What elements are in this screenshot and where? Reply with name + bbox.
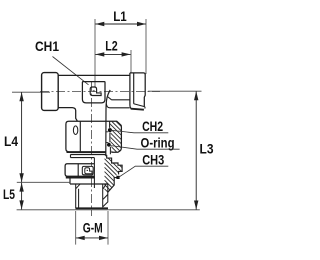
- body CH3 bottom thick edge: [66, 176, 95, 178]
- section hatching body below CH2: [105, 154, 123, 193]
- svg-text:L1: L1: [113, 9, 127, 24]
- wire vertical stem axis: [90, 82, 92, 216]
- body CH3 socket glyph: [85, 168, 92, 174]
- body right swivel nut right edge: [143, 74, 146, 106]
- wire L5 dimension line with arrows: [21, 183, 23, 210]
- body CH1 hex box: [82, 82, 105, 103]
- body washer under CH2 nut: [71, 155, 107, 158]
- svg-text:CH1: CH1: [35, 39, 59, 54]
- body CH3 locknut hex: [65, 164, 94, 177]
- body right port cone diagonal: [108, 97, 112, 100]
- wire right axis extension solid to L3: [148, 90, 202, 92]
- body threaded stud: [76, 183, 108, 208]
- svg-text:L3: L3: [200, 141, 214, 156]
- body stem right fillet S-curve and stem edge in section: [106, 90, 110, 154]
- wire L4/L5 datum extension line: [17, 181, 70, 183]
- svg-text:CH3: CH3: [142, 152, 164, 167]
- wire CH2 leader: [110, 130, 168, 133]
- body left cap: [42, 73, 59, 111]
- body right swivel nut inner chamfer line: [133, 73, 135, 104]
- wire L1 dimension line with arrows: [95, 23, 146, 25]
- body CH2 swivel nut on stem: [66, 121, 122, 152]
- body CH2 nut bore profile with O-ring steps: [109, 121, 112, 154]
- body barrel top edge: [58, 74, 130, 76]
- wire L1/L2 left extension line: [94, 19, 96, 87]
- node CH3 leader dot: [116, 176, 119, 179]
- wire horizontal centerline barrel axis: [40, 91, 160, 93]
- section hatching CH2 nut: [105, 122, 122, 153]
- body right swivel nut top edge: [130, 73, 145, 75]
- body collar below CH3: [70, 178, 108, 184]
- node O-ring dot upper CH2 leader endpoint: [108, 128, 112, 132]
- body underside ledge right of stem: [106, 104, 129, 108]
- wire G-M right extension line: [107, 211, 109, 245]
- wire left axis extension solid: [12, 91, 50, 93]
- body right nut bottom thick edge: [131, 109, 144, 110]
- wire L4 dimension line with arrows: [21, 92, 23, 182]
- body CH1 hex socket glyph: [90, 87, 101, 96]
- body right stub underside edge: [111, 99, 130, 101]
- body CH3 marker box: [82, 166, 93, 174]
- wire L3 dimension line with arrows: [195, 91, 197, 209]
- body right swivel nut skirt upper edge: [134, 104, 145, 109]
- body O-ring groove notch ticks: [106, 132, 109, 143]
- wire O-ring leader: [111, 146, 180, 150]
- svg-text:L4: L4: [4, 134, 18, 149]
- svg-text:CH2: CH2: [142, 119, 163, 134]
- svg-text:L2: L2: [105, 39, 118, 54]
- body CH2 hex flat line: [79, 122, 81, 152]
- wire G-M left extension line: [75, 211, 77, 245]
- body section boundary line on stem: [93, 158, 95, 188]
- body CH2 nut bottom thick edge: [67, 151, 106, 153]
- body CH3 hex flat line: [77, 164, 79, 176]
- wire CH1 leader line: [53, 57, 89, 85]
- svg-text:O-ring: O-ring: [141, 135, 175, 150]
- body barrel bottom left edge with fillet: [58, 108, 77, 122]
- wire G-M dimension line with arrows: [76, 237, 108, 239]
- wire L1 right extension line: [145, 19, 147, 74]
- wire L2 dimension line with arrows: [95, 53, 130, 55]
- wire L2 right extension line: [130, 50, 132, 73]
- wire CH3 leader: [118, 166, 168, 177]
- svg-text:G-M: G-M: [83, 220, 103, 235]
- node O-ring dot lower leader endpoint: [107, 143, 111, 147]
- svg-text:L5: L5: [3, 187, 15, 202]
- body CH2 hex corner ellipse: [73, 126, 77, 135]
- body section staircase right of stem: [107, 155, 122, 193]
- wire bottom datum extension line: [17, 209, 200, 211]
- body stud bottom thick edge: [75, 207, 108, 209]
- body right swivel nut left edge: [130, 73, 131, 109]
